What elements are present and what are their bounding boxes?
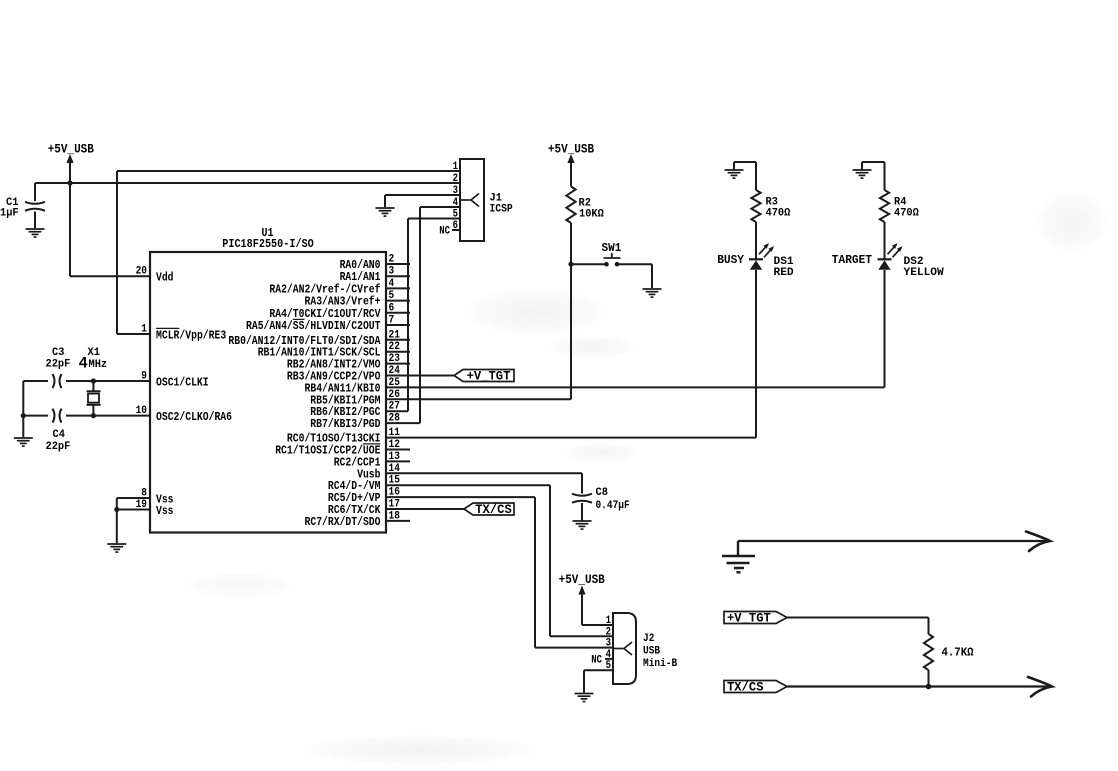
svg-text:+5V_USB: +5V_USB [559, 572, 605, 587]
wire OSC1 net [23, 380, 48, 382]
net flag TX/CS (at U1) [464, 503, 514, 515]
node OSC1/crystal junction [91, 378, 96, 383]
svg-text:2: 2 [389, 254, 395, 266]
net flag TX/CS (bottom right) [724, 681, 787, 693]
svg-text:C3: C3 [52, 347, 65, 359]
wire ground to R4 top [861, 162, 863, 170]
wire +V_TGT to resistor [787, 617, 929, 619]
J2 pin 4 NC stub [605, 658, 613, 660]
ground below C8 [573, 521, 592, 529]
svg-text:X1: X1 [88, 347, 101, 359]
U1 pin 22 RB1/AN10/INT1/SCK/SCL [386, 351, 410, 353]
node OSC2/crystal junction [91, 413, 96, 418]
U1 pin 13 RC2/CCP1 [386, 460, 410, 462]
svg-text:470Ω: 470Ω [766, 208, 791, 220]
svg-text:Mini-B: Mini-B [643, 658, 677, 670]
wire Vss pins 8/19 to ground [117, 497, 150, 499]
svg-text:C8: C8 [596, 487, 609, 499]
svg-text:4: 4 [389, 278, 395, 290]
net flag +V_TGT (at U1) [454, 370, 514, 382]
svg-text:OSC1/CLKI: OSC1/CLKI [156, 376, 209, 390]
svg-text:BUSY: BUSY [717, 253, 745, 267]
wire J1 pin 1 to MCLR vertical [117, 170, 460, 172]
wire ground to R3 top [733, 162, 735, 170]
svg-text:NC: NC [591, 655, 602, 667]
node C3/C4 left junction [21, 413, 26, 418]
resistor R3 [751, 190, 760, 222]
wire SW1 right contact to ground [617, 263, 652, 265]
svg-text:J2: J2 [643, 633, 655, 645]
U1 pin 5 RA3/AN3/Vref+ [386, 300, 410, 302]
ground above R4 [853, 170, 872, 178]
svg-text:ICSP: ICSP [490, 204, 513, 216]
ground below SW1 [643, 289, 662, 297]
wire DS1 down to RC0 pin 11 [755, 270, 757, 438]
svg-text:13: 13 [389, 451, 401, 463]
svg-text:12: 12 [389, 439, 400, 451]
ground below C1 [26, 229, 45, 237]
wire ground rail to arrow [738, 540, 1046, 542]
wire J2 pin 5 to ground [584, 669, 613, 671]
LED DS2 [878, 258, 892, 260]
arrow TX/CS rail [1028, 677, 1052, 697]
wire +5V_USB horizontal to J1 pin 2 [35, 182, 460, 184]
U1 pin 21 RB0/AN12/INT0/FLT0/SDI/SDA [386, 339, 410, 341]
svg-text:3: 3 [389, 266, 395, 278]
connector J2 symbol [613, 642, 632, 655]
U1 pin 7 RA5/AN4/SS/HLVDIN/C2OUT [386, 324, 410, 326]
wire RC4/D- pin 15 to J2 pin 2 [386, 484, 550, 486]
connector J1 body [460, 159, 484, 241]
wire node to SW1 left contact [571, 263, 606, 265]
svg-text:2: 2 [453, 173, 458, 185]
ground below C3/C4 [14, 438, 33, 446]
LED DS1 [749, 258, 763, 260]
wire J1 pin 3 to ground [385, 194, 460, 196]
wire RC6 pin 17 to TX/CS flag [386, 508, 464, 510]
ground below J2 [575, 694, 594, 702]
U1 pin 3 RA1/AN1 [386, 275, 410, 277]
svg-text:0.47µF: 0.47µF [596, 500, 630, 512]
ground (bottom right header) [722, 556, 755, 572]
svg-text:PIC18F2550-I/SO: PIC18F2550-I/SO [222, 237, 314, 251]
wire +5V_USB to J2 pin 1 [582, 624, 613, 626]
ground below Vss [107, 544, 126, 552]
svg-text:+V_TGT: +V_TGT [727, 611, 771, 626]
wire Vusb pin 14 to C8 [386, 472, 582, 474]
ground above R3 [725, 170, 744, 178]
wire RB3 pin 24 to +V_TGT flag [386, 375, 454, 377]
U1 pin 18 RC7/RX/DT/SDO [386, 520, 410, 522]
svg-text:6: 6 [389, 302, 395, 314]
svg-text:RB7/KBI3/PGD: RB7/KBI3/PGD [310, 417, 380, 431]
node +5V_USB junction at C1/arrow [67, 180, 72, 185]
U1 pin 23 RB2/AN8/INT2/VMO [386, 363, 410, 365]
node TX/CS junction [926, 684, 932, 690]
node R2/SW1 junction [568, 262, 573, 267]
wire caps left side to ground [22, 381, 24, 437]
crystal X1 [92, 381, 94, 391]
connector J1 symbol [460, 194, 479, 207]
resistor 4.7K pull-up [924, 634, 933, 670]
svg-text:4: 4 [79, 355, 88, 373]
svg-text:TARGET: TARGET [832, 253, 872, 267]
node Vss junction [114, 507, 119, 512]
svg-text:C4: C4 [53, 429, 66, 441]
svg-text:MHz: MHz [89, 359, 108, 371]
svg-text:SW1: SW1 [602, 241, 622, 255]
wire J1 pin 4 to RB7/PGD [420, 206, 460, 208]
svg-text:TX/CS: TX/CS [475, 502, 512, 517]
capacitor C4 [53, 409, 55, 423]
wire RC5/D+ pin 16 to J2 pin 3 [386, 496, 535, 498]
U1 pin 4 RA2/AN2/Vref-/CVref [386, 287, 410, 289]
svg-text:+V_TGT: +V_TGT [467, 369, 511, 384]
svg-text:+5V_USB: +5V_USB [548, 142, 594, 157]
IC U1 PIC18F2550 body [150, 252, 386, 533]
U1 pin 6 RA4/T0CKI/C1OUT/RCV [386, 312, 410, 314]
svg-text:22pF: 22pF [46, 441, 71, 453]
svg-text:5: 5 [389, 290, 395, 302]
svg-text:MCLR/Vpp/RE3: MCLR/Vpp/RE3 [156, 329, 226, 343]
svg-text:23: 23 [389, 353, 401, 365]
capacitor C1 [34, 183, 36, 201]
svg-text:7: 7 [389, 315, 395, 327]
overline MCLR on U1 pin 1 name [156, 327, 179, 329]
U1 pin 12 RC1/T1OSI/CCP2/UOE [386, 449, 410, 451]
resistor R4 [880, 190, 889, 222]
svg-text:22pF: 22pF [46, 359, 71, 371]
ground at J1 pin 3 [376, 208, 395, 216]
wire J1 pin 5 to RB6/PGC [408, 218, 460, 220]
capacitor C8 [572, 494, 592, 496]
wire OSC2 net [23, 415, 48, 417]
svg-text:4.7KΩ: 4.7KΩ [942, 646, 974, 660]
wire R2/SW1 node down to RB5 pin 26 [570, 264, 572, 399]
svg-text:22: 22 [389, 341, 400, 353]
svg-text:10KΩ: 10KΩ [579, 209, 604, 221]
wire +5V_USB down to U1 Vdd pin 20 [69, 183, 71, 276]
arrow ground rail [1026, 532, 1050, 552]
svg-text:18: 18 [389, 510, 401, 522]
wire MCLR vertical down to U1 pin 1 [116, 171, 118, 334]
svg-text:USB: USB [643, 646, 660, 658]
J1 pin 6 NC stub [452, 229, 460, 231]
svg-text:RC7/RX/DT/SDO: RC7/RX/DT/SDO [305, 515, 381, 529]
overline UOE on U1 pin 12 name [363, 443, 381, 445]
svg-text:21: 21 [389, 329, 401, 341]
wire TX/CS rail to arrow [787, 685, 1048, 687]
wire R2 to SW1 node [570, 223, 572, 264]
svg-text:NC: NC [439, 226, 450, 238]
svg-text:+5V_USB: +5V_USB [48, 142, 94, 157]
net flag +V_TGT (bottom right) [724, 612, 787, 624]
svg-text:Vdd: Vdd [156, 271, 174, 285]
capacitor C3 [53, 374, 55, 388]
svg-text:TX/CS: TX/CS [727, 680, 764, 695]
U1 pin 2 RA0/AN0 [386, 263, 410, 265]
svg-text:1µF: 1µF [0, 208, 19, 220]
switch SW1 [604, 262, 609, 267]
svg-text:470Ω: 470Ω [894, 208, 919, 220]
wire R4 to DS2 [884, 222, 886, 259]
svg-text:RED: RED [774, 267, 794, 279]
svg-text:OSC2/CLKO/RA6: OSC2/CLKO/RA6 [156, 410, 232, 424]
svg-text:3: 3 [606, 638, 611, 650]
svg-text:Vss: Vss [156, 504, 174, 518]
svg-text:RA5/AN4/SS/HLVDIN/C2OUT: RA5/AN4/SS/HLVDIN/C2OUT [246, 319, 381, 333]
connector J2 body [613, 613, 636, 684]
svg-text:YELLOW: YELLOW [904, 267, 945, 279]
svg-text:2: 2 [606, 626, 611, 638]
wire DS2 down to RB4 pin 25 [884, 270, 886, 387]
resistor R2 [566, 187, 575, 224]
wire resistor to TX/CS rail [928, 670, 930, 687]
wire R3 to DS1 [755, 222, 757, 259]
overline SS on U1 pin 7 name [293, 318, 305, 320]
